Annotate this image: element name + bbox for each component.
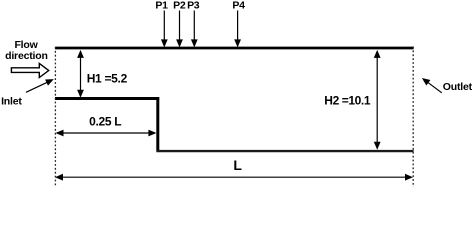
- svg-text:H2 =10.1: H2 =10.1: [324, 93, 371, 107]
- svg-text:Inlet: Inlet: [1, 96, 22, 108]
- block arrow flow direction: [11, 63, 48, 77]
- pointer arrow outlet: [422, 78, 442, 93]
- wire step vertical face: [156, 97, 159, 152]
- probe arrow P3: [191, 11, 198, 48]
- svg-text:Outlet: Outlet: [443, 81, 473, 93]
- wire top wall: [55, 47, 414, 50]
- dimension arrow 0.25 L: [56, 130, 157, 137]
- pointer arrow inlet: [26, 79, 54, 92]
- node inlet boundary (dashed): [54, 47, 56, 186]
- svg-text:0.25 L: 0.25 L: [89, 115, 121, 129]
- probe arrow P2: [176, 11, 183, 48]
- wire bottom wall: [156, 150, 413, 152]
- svg-text:H1 =5.2: H1 =5.2: [87, 72, 128, 86]
- svg-text:P2: P2: [173, 0, 186, 12]
- dimension arrow H2: [374, 50, 381, 150]
- node outlet boundary (dashed): [412, 47, 414, 188]
- svg-text:P1: P1: [155, 0, 168, 12]
- wire step upper wall: [55, 97, 159, 100]
- svg-text:L: L: [233, 157, 242, 173]
- probe arrow P4: [234, 11, 241, 48]
- svg-text:P3: P3: [187, 0, 200, 12]
- dimension arrow L: [55, 174, 413, 181]
- svg-text:direction: direction: [5, 50, 48, 62]
- svg-text:P4: P4: [232, 0, 245, 12]
- dimension arrow H1: [77, 50, 84, 98]
- probe arrow P1: [161, 11, 168, 48]
